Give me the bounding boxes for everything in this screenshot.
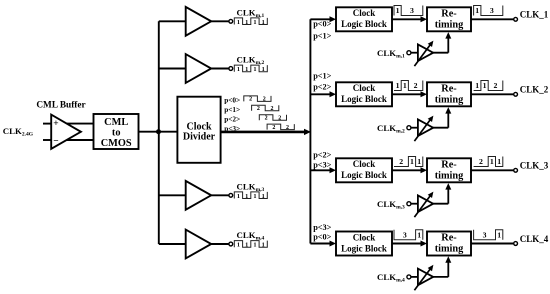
svg-text:p<2>: p<2> bbox=[313, 151, 331, 160]
svg-text:Clock: Clock bbox=[353, 159, 376, 169]
svg-text:1: 1 bbox=[396, 81, 400, 90]
svg-text:timing: timing bbox=[435, 19, 464, 30]
svg-text:Re-: Re- bbox=[441, 8, 457, 19]
svg-text:p<2>: p<2> bbox=[224, 115, 240, 124]
svg-text:CLK_1: CLK_1 bbox=[520, 10, 549, 20]
svg-text:Logic Block: Logic Block bbox=[341, 94, 387, 104]
svg-text:timing: timing bbox=[435, 170, 464, 181]
svg-text:1: 1 bbox=[237, 66, 240, 73]
svg-text:1: 1 bbox=[245, 19, 248, 26]
svg-text:timing: timing bbox=[435, 94, 464, 105]
svg-text:p<1>: p<1> bbox=[224, 105, 240, 114]
svg-text:1: 1 bbox=[417, 157, 421, 166]
svg-text:Re-: Re- bbox=[441, 159, 457, 170]
svg-text:p<1>: p<1> bbox=[313, 31, 331, 40]
svg-text:1: 1 bbox=[475, 6, 479, 15]
svg-text:Clock: Clock bbox=[353, 8, 376, 18]
svg-text:1: 1 bbox=[490, 157, 494, 166]
svg-text:Re-: Re- bbox=[441, 83, 457, 94]
svg-text:1: 1 bbox=[262, 193, 265, 200]
svg-text:1: 1 bbox=[396, 6, 400, 15]
svg-text:1: 1 bbox=[497, 157, 501, 166]
svg-text:p<3>: p<3> bbox=[313, 161, 331, 170]
svg-text:2: 2 bbox=[270, 106, 273, 112]
svg-text:1: 1 bbox=[417, 230, 421, 239]
svg-text:1: 1 bbox=[253, 66, 256, 73]
svg-text:CLK_3: CLK_3 bbox=[520, 161, 549, 171]
svg-text:1: 1 bbox=[403, 81, 407, 90]
svg-text:1: 1 bbox=[253, 19, 256, 26]
svg-text:2: 2 bbox=[414, 81, 418, 90]
svg-text:1: 1 bbox=[237, 193, 240, 200]
svg-text:Logic Block: Logic Block bbox=[341, 19, 387, 29]
svg-text:2: 2 bbox=[265, 116, 268, 122]
svg-text:2: 2 bbox=[272, 125, 275, 131]
svg-text:2: 2 bbox=[479, 157, 483, 166]
svg-text:1: 1 bbox=[237, 19, 240, 26]
svg-text:1: 1 bbox=[410, 157, 414, 166]
svg-text:Clock: Clock bbox=[353, 83, 376, 93]
svg-text:Clock: Clock bbox=[353, 232, 376, 242]
svg-text:1: 1 bbox=[245, 66, 248, 73]
svg-text:CLK_2: CLK_2 bbox=[520, 85, 549, 95]
svg-text:1: 1 bbox=[253, 242, 256, 249]
svg-text:p<0>: p<0> bbox=[313, 19, 331, 28]
svg-text:3: 3 bbox=[490, 6, 494, 15]
svg-text:CML Buffer: CML Buffer bbox=[36, 100, 85, 110]
svg-text:+: + bbox=[53, 119, 58, 129]
svg-text:p<1>: p<1> bbox=[313, 71, 331, 80]
svg-text:Re-: Re- bbox=[441, 233, 457, 244]
svg-text:1: 1 bbox=[497, 230, 501, 239]
svg-text:2: 2 bbox=[263, 97, 266, 103]
svg-text:Logic Block: Logic Block bbox=[341, 170, 387, 180]
svg-text:CMOS: CMOS bbox=[101, 138, 132, 149]
svg-text:3: 3 bbox=[483, 230, 487, 239]
svg-text:2: 2 bbox=[257, 106, 260, 112]
svg-text:1: 1 bbox=[262, 66, 265, 73]
svg-text:1: 1 bbox=[253, 193, 256, 200]
svg-text:1: 1 bbox=[262, 242, 265, 249]
svg-text:1: 1 bbox=[245, 242, 248, 249]
svg-text:2: 2 bbox=[399, 157, 403, 166]
svg-text:1: 1 bbox=[483, 81, 487, 90]
svg-text:p<2>: p<2> bbox=[313, 83, 331, 92]
svg-text:p<0>: p<0> bbox=[224, 96, 240, 105]
svg-text:p<3>: p<3> bbox=[313, 223, 331, 232]
svg-text:2: 2 bbox=[278, 116, 281, 122]
svg-text:CLK_4: CLK_4 bbox=[520, 234, 549, 244]
svg-text:CML: CML bbox=[104, 117, 128, 128]
svg-text:Logic Block: Logic Block bbox=[341, 243, 387, 253]
svg-text:3: 3 bbox=[410, 6, 414, 15]
svg-text:−: − bbox=[53, 136, 58, 146]
svg-text:to: to bbox=[112, 127, 121, 138]
svg-text:1: 1 bbox=[245, 193, 248, 200]
svg-text:2: 2 bbox=[286, 125, 289, 131]
svg-text:3: 3 bbox=[403, 230, 407, 239]
svg-text:Divider: Divider bbox=[183, 132, 216, 143]
svg-text:1: 1 bbox=[475, 81, 479, 90]
svg-text:1: 1 bbox=[237, 242, 240, 249]
svg-text:1: 1 bbox=[262, 19, 265, 26]
svg-text:2: 2 bbox=[249, 97, 252, 103]
svg-text:timing: timing bbox=[435, 244, 464, 255]
svg-text:2: 2 bbox=[494, 81, 498, 90]
svg-text:p<0>: p<0> bbox=[313, 233, 331, 242]
